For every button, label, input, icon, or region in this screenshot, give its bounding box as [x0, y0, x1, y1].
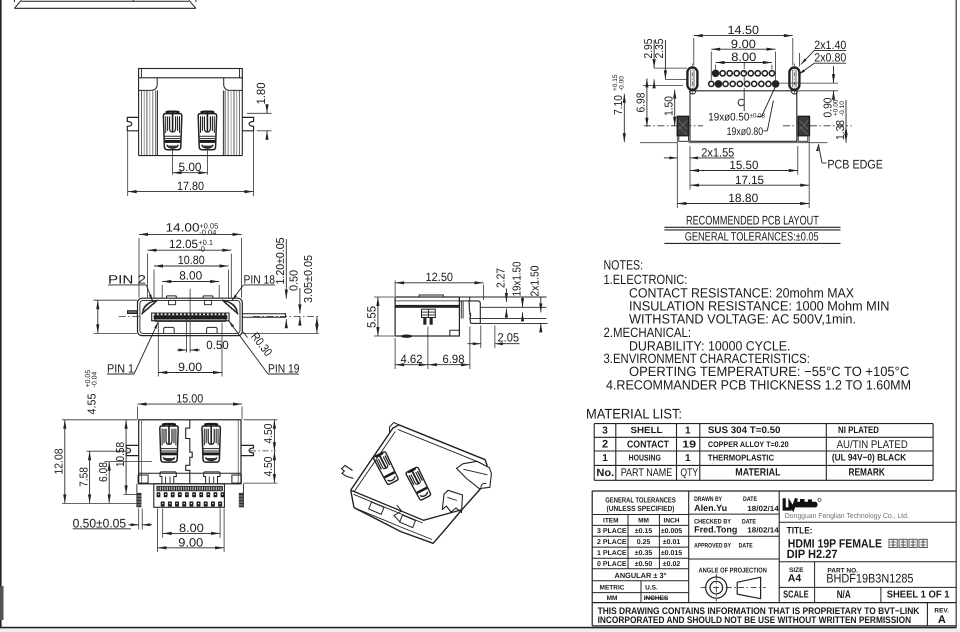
svg-text:2.35: 2.35 — [654, 39, 666, 59]
svg-text:19xø0.80: 19xø0.80 — [727, 126, 764, 138]
svg-text:INCH: INCH — [664, 518, 680, 525]
svg-text:(UL 94V−0) BLACK: (UL 94V−0) BLACK — [832, 453, 906, 464]
svg-text:1.20±0.05: 1.20±0.05 — [275, 238, 287, 285]
svg-text:INCORPORATED AND SHOULD NOT: INCORPORATED AND SHOULD NOT BE USE WITHO… — [598, 615, 912, 626]
svg-text:±0.005: ±0.005 — [661, 528, 682, 535]
svg-text:9.00: 9.00 — [178, 535, 203, 549]
svg-text:6.08: 6.08 — [98, 462, 110, 482]
svg-text:8.00: 8.00 — [179, 268, 202, 282]
svg-text:No.: No. — [596, 467, 614, 479]
svg-text:2x1.50: 2x1.50 — [530, 266, 542, 297]
svg-text:15.50: 15.50 — [729, 158, 758, 172]
svg-text:1: 1 — [602, 453, 608, 464]
svg-text:19: 19 — [682, 440, 697, 451]
svg-text:8.00: 8.00 — [731, 50, 756, 64]
svg-text:PCB EDGE: PCB EDGE — [827, 158, 883, 172]
svg-text:12.05: 12.05 — [169, 237, 198, 251]
svg-text:17.15: 17.15 — [735, 173, 764, 187]
svg-text:-0.04: -0.04 — [92, 371, 99, 387]
svg-text:0.25: 0.25 — [637, 539, 651, 546]
svg-text:8.00: 8.00 — [179, 521, 204, 535]
svg-text:MM: MM — [607, 595, 618, 602]
svg-text:10.58: 10.58 — [115, 442, 127, 467]
svg-text:5.55: 5.55 — [364, 306, 378, 328]
svg-text:9.00: 9.00 — [178, 360, 202, 374]
svg-text:SUS 304 T=0.50: SUS 304 T=0.50 — [708, 425, 781, 436]
svg-text:COPPER ALLOY T=0.20: COPPER ALLOY T=0.20 — [708, 440, 789, 449]
svg-text:2: 2 — [602, 439, 608, 451]
svg-text:1: 1 — [685, 425, 691, 436]
svg-text:19x1.50: 19x1.50 — [511, 262, 523, 297]
svg-text:17.80: 17.80 — [177, 179, 204, 193]
svg-text:REMARK: REMARK — [849, 466, 886, 478]
svg-text:DIP H2.27: DIP H2.27 — [787, 547, 838, 561]
svg-text:15.00: 15.00 — [176, 392, 203, 406]
svg-text:MATERIAL LIST:: MATERIAL LIST: — [586, 406, 682, 422]
svg-text:MM: MM — [638, 518, 649, 525]
svg-text:NOTES:: NOTES: — [604, 258, 644, 273]
svg-text:3.05±0.05: 3.05±0.05 — [303, 255, 315, 303]
svg-text:5.00: 5.00 — [179, 160, 202, 174]
svg-text:Dongguan Fenglian Technology C: Dongguan Fenglian Technology Co., Ltd. — [785, 511, 909, 520]
svg-text:10.80: 10.80 — [178, 253, 205, 267]
svg-text:N/A: N/A — [837, 589, 851, 601]
svg-text:0.50: 0.50 — [206, 338, 229, 352]
svg-text:ANGULAR ± 3°: ANGULAR ± 3° — [615, 571, 667, 580]
svg-text:TITLE:: TITLE: — [787, 526, 813, 537]
svg-text:HOUSING: HOUSING — [629, 453, 662, 463]
svg-text:NI PLATED: NI PLATED — [838, 425, 879, 436]
svg-text:RECOMMENDED PCB LAYOUT: RECOMMENDED PCB LAYOUT — [686, 214, 819, 228]
svg-text:METRIC: METRIC — [600, 585, 625, 592]
svg-text:1.38: 1.38 — [835, 120, 847, 140]
svg-text:4.RECOMMANDER PCB THICKNESS: 4.RECOMMANDER PCB THICKNESS 1.2 TO 1.60M… — [606, 377, 911, 392]
svg-text:2.27: 2.27 — [495, 268, 507, 288]
svg-text:MATERIAL: MATERIAL — [735, 467, 781, 479]
svg-text:1.50: 1.50 — [663, 96, 675, 116]
svg-text:-0.10: -0.10 — [839, 101, 846, 116]
svg-text:PIN 2: PIN 2 — [108, 272, 146, 286]
svg-text:3: 3 — [602, 425, 608, 436]
svg-text:U.S.: U.S. — [645, 585, 658, 592]
svg-text:A: A — [938, 614, 946, 626]
svg-text:9.00: 9.00 — [731, 37, 756, 51]
svg-text:INCHES: INCHES — [644, 595, 669, 602]
svg-text:Alen.Yu: Alen.Yu — [694, 503, 727, 513]
svg-text:SHELL: SHELL — [631, 425, 664, 435]
svg-text:AU/TIN PLATED: AU/TIN PLATED — [837, 439, 908, 451]
svg-text:PIN 19: PIN 19 — [268, 362, 300, 376]
svg-text:BHDF19B3N1285: BHDF19B3N1285 — [826, 572, 913, 586]
svg-text:4.62: 4.62 — [401, 352, 423, 366]
svg-text:12.50: 12.50 — [426, 270, 454, 284]
svg-text:-0.00: -0.00 — [619, 76, 626, 91]
svg-text:14.00: 14.00 — [166, 221, 200, 235]
svg-text:4.50: 4.50 — [263, 424, 275, 444]
svg-text:±0.02: ±0.02 — [663, 561, 681, 568]
svg-text:1: 1 — [685, 453, 691, 464]
svg-text:ANGLE OF PROJECTION: ANGLE OF PROJECTION — [699, 567, 767, 574]
svg-text:A4: A4 — [788, 572, 802, 584]
svg-text:GENERAL TOLERANCES:±0.05: GENERAL TOLERANCES:±0.05 — [685, 229, 819, 243]
svg-text:QTY: QTY — [680, 467, 698, 479]
svg-text:DATE: DATE — [739, 543, 754, 550]
svg-text:PIN 18: PIN 18 — [244, 272, 276, 286]
svg-text:2.05: 2.05 — [498, 331, 520, 345]
svg-text:19xø0.50: 19xø0.50 — [708, 112, 749, 124]
svg-text:0.50±0.05: 0.50±0.05 — [73, 516, 127, 530]
svg-text:7.10: 7.10 — [613, 95, 625, 115]
svg-text:18.80: 18.80 — [728, 191, 758, 205]
svg-text:18/02/14: 18/02/14 — [747, 526, 779, 535]
svg-text:CONTACT: CONTACT — [627, 439, 669, 450]
svg-text:±0.01: ±0.01 — [663, 539, 681, 546]
svg-text:6.98: 6.98 — [443, 352, 465, 366]
svg-text:±0.15: ±0.15 — [635, 528, 653, 535]
svg-text:2x0.80: 2x0.80 — [814, 51, 846, 65]
svg-text:4.55: 4.55 — [86, 394, 98, 415]
svg-text:(UNLESS SPECIFIED): (UNLESS SPECIFIED) — [607, 504, 675, 513]
svg-text:18/02/14: 18/02/14 — [747, 504, 779, 513]
svg-text:±0.35: ±0.35 — [635, 550, 653, 557]
svg-text:PIN 1: PIN 1 — [107, 362, 134, 376]
svg-text:6.98: 6.98 — [636, 93, 648, 113]
svg-text:3 PLACE: 3 PLACE — [597, 528, 627, 535]
svg-text:ITEM: ITEM — [603, 518, 619, 525]
svg-text:PART NAME: PART NAME — [621, 467, 673, 479]
svg-text:2 PLACE: 2 PLACE — [597, 539, 627, 546]
svg-text:2.95: 2.95 — [643, 39, 655, 59]
svg-text:7.58: 7.58 — [78, 467, 90, 487]
svg-text:14.50: 14.50 — [728, 23, 760, 37]
svg-text:4.50: 4.50 — [263, 457, 275, 477]
svg-text:1.80: 1.80 — [254, 82, 268, 104]
svg-text:±0.50: ±0.50 — [635, 561, 653, 568]
svg-text:APPROVED BY: APPROVED BY — [694, 543, 731, 550]
svg-text:THERMOPLASTIC: THERMOPLASTIC — [708, 452, 774, 462]
svg-text:0.50: 0.50 — [289, 270, 301, 291]
svg-text:-0.04: -0.04 — [199, 228, 216, 237]
svg-text:DATE: DATE — [743, 496, 758, 503]
svg-text:12.08: 12.08 — [53, 449, 65, 475]
svg-text:1 PLACE: 1 PLACE — [597, 550, 627, 557]
svg-text:SHEEL 1 OF 1: SHEEL 1 OF 1 — [887, 590, 950, 601]
svg-text:±0.015: ±0.015 — [661, 550, 682, 557]
svg-text:0 PLACE: 0 PLACE — [597, 561, 627, 568]
svg-text:Fred.Tong: Fred.Tong — [694, 525, 737, 535]
svg-text:SCALE: SCALE — [783, 590, 809, 601]
